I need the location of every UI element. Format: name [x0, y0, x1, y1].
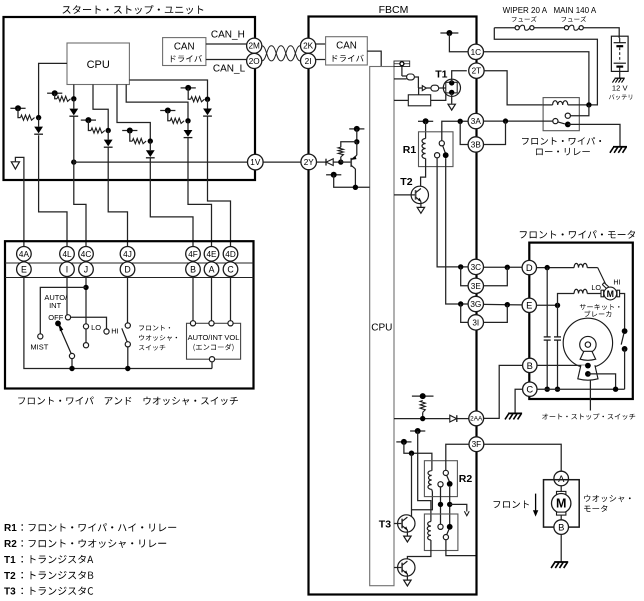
svg-text:B: B [558, 521, 564, 532]
pin 2I [301, 53, 316, 68]
contact LO lower [83, 343, 88, 348]
wire 3A-relay [484, 120, 553, 122]
contact enc A [209, 321, 214, 326]
start-stop unit box [4, 17, 256, 180]
pin 3E [468, 278, 483, 293]
wire cell1 to 4L [39, 135, 67, 247]
pin 3C [468, 259, 483, 274]
diode D2 [69, 109, 78, 116]
ground T1 [448, 104, 455, 110]
svg-text:R2: R2 [4, 539, 17, 550]
wire coil lead L [543, 104, 553, 106]
diode D-2Y [325, 159, 327, 166]
wire to 3E [461, 267, 468, 286]
junction rail-wiper [69, 366, 74, 371]
svg-text:2Y: 2Y [304, 158, 315, 167]
wire cell3 feed [93, 85, 108, 131]
pin D motor [522, 260, 536, 274]
wire HI to brush [587, 267, 598, 269]
pin 2T [469, 63, 484, 78]
wire T1 source [451, 93, 453, 104]
resistor R-2Y [338, 147, 343, 157]
wire T4 emitter [406, 574, 408, 580]
svg-text:2T: 2T [472, 67, 482, 76]
diode D4 [146, 150, 155, 157]
junction D feed [505, 265, 510, 270]
wire washer down [127, 347, 129, 369]
wire res-2AA [422, 412, 424, 418]
pin 4A [17, 247, 32, 262]
encoder box [187, 323, 241, 359]
junction cell3 [106, 128, 111, 133]
resistor cell3 [91, 128, 105, 133]
wiper motor box [529, 243, 633, 399]
wire R1 com up [442, 121, 468, 141]
svg-text:MAIN 140 A: MAIN 140 A [554, 6, 597, 15]
svg-text:3I: 3I [472, 318, 479, 327]
svg-text:2O: 2O [249, 57, 260, 66]
label front wiper low relay [522, 137, 601, 145]
label washer motor [584, 495, 630, 502]
svg-text:INT: INT [49, 301, 62, 310]
brush washer bottom [557, 512, 566, 515]
pin B motor [523, 358, 537, 372]
wire cell3 to 4J [108, 147, 127, 247]
svg-text:CPU: CPU [371, 323, 392, 334]
resistor cell4 [132, 139, 146, 144]
svg-text:R1: R1 [4, 523, 17, 534]
wire 2AA-B [484, 365, 523, 418]
contact enc bottom [209, 357, 214, 362]
wire RLY out gnd [568, 124, 620, 146]
pin D switch [120, 262, 135, 277]
brush LO [601, 290, 604, 297]
svg-text:4C: 4C [81, 250, 92, 259]
autostop shoe [578, 365, 598, 380]
svg-text:MIST: MIST [30, 342, 48, 351]
wire cell5 feed [126, 85, 188, 121]
junction washer supply [409, 451, 414, 456]
transistor T3 [398, 515, 415, 532]
contact washer top [125, 323, 130, 328]
brush common [617, 290, 620, 297]
svg-text:AUTO/INT VOL: AUTO/INT VOL [188, 333, 240, 342]
wire T3 emitter [406, 530, 408, 536]
wire AUTO-INT branch [40, 287, 86, 334]
junction cap1 [545, 387, 550, 392]
svg-text:HI: HI [111, 327, 119, 336]
relay R1 coil [422, 139, 426, 159]
wire B row [537, 364, 588, 366]
FBCM box [309, 17, 477, 595]
wire fuse to gate1 [402, 75, 407, 77]
wire pin C down [230, 276, 232, 321]
relay RLY-LO box [543, 98, 579, 131]
junction E in [555, 303, 560, 308]
pin 2K [301, 38, 316, 53]
wire cpu to gate1 [394, 78, 407, 80]
fuse MAIN 140A [564, 26, 568, 30]
wire brush-B [560, 515, 562, 520]
wire 2I-CAN [316, 59, 326, 61]
wire supply down [356, 129, 358, 142]
pin 4F [186, 247, 201, 262]
junction 2Y supply [354, 139, 359, 144]
fuse F-int box [394, 61, 410, 67]
junction 3A-3B [458, 119, 463, 124]
wire R1NO-3C [437, 158, 468, 267]
wire stub-collector [334, 175, 370, 188]
ground C pin [508, 412, 522, 414]
wire R2NO down [440, 487, 442, 524]
transistor T4 [398, 559, 415, 576]
pin C motor [523, 382, 537, 396]
wire cap1 bottom [546, 340, 548, 389]
wire res branch [341, 142, 357, 147]
wire diode-2AApin [457, 418, 469, 420]
pin 4D [223, 247, 238, 262]
wire to 3I [461, 304, 468, 322]
relay R3 lever [447, 529, 449, 534]
svg-text:2AA: 2AA [470, 416, 483, 423]
svg-text:CAN_H: CAN_H [211, 30, 245, 41]
junction E feed [505, 302, 510, 307]
pin I switch [60, 262, 75, 277]
logic block U-E [408, 95, 430, 106]
wire enc bottom [211, 362, 213, 369]
wire S2 elbow [55, 93, 57, 99]
junction cell1 [36, 115, 41, 120]
wire cell3 mid [107, 131, 109, 140]
svg-text:LO: LO [91, 323, 101, 332]
node stub S3 [81, 119, 96, 121]
svg-text:A: A [209, 264, 215, 274]
pin 2M [247, 38, 262, 53]
wire pin I down [66, 276, 68, 315]
svg-text:E: E [526, 300, 532, 311]
transistor Q-2Y pnp [350, 158, 352, 167]
contact washer bottom [125, 342, 130, 347]
node stub S1 [10, 107, 25, 109]
wire cell1 feed [39, 63, 67, 117]
wire fuse down [401, 66, 403, 76]
transistor T1 fet [443, 79, 460, 96]
resistor cell2 [57, 96, 71, 101]
CAN driver U-C box [326, 37, 368, 65]
autostop leader [589, 380, 591, 411]
svg-text:J: J [84, 264, 88, 274]
wire cell5 mid [187, 121, 189, 130]
pin 4L [60, 247, 75, 262]
label encoder [194, 344, 234, 352]
gate G1 [407, 74, 415, 80]
svg-text:2K: 2K [303, 42, 314, 51]
pin 1V [248, 154, 264, 170]
wire supply-T3 [411, 453, 413, 516]
CAN driver U-B box [163, 38, 206, 66]
node stub S5 [160, 110, 175, 112]
resistor cell5 [170, 118, 184, 123]
svg-text:4A: 4A [19, 250, 30, 259]
pin 2Y [301, 154, 317, 170]
wire stub1 to coil2 [418, 431, 431, 522]
wire res-base [340, 157, 342, 162]
contact R1 com [439, 141, 444, 146]
brush washer top [557, 491, 566, 494]
wire T1 drain [452, 71, 467, 83]
junction cell2 [71, 96, 76, 101]
svg-text:4F: 4F [188, 250, 198, 259]
wire S4 elbow [130, 131, 133, 142]
node stub washer1 [410, 430, 425, 432]
resistor cell6 [191, 97, 205, 102]
wire CAN_L [206, 59, 247, 61]
svg-text:T1: T1 [435, 69, 447, 81]
wire C row [537, 388, 625, 390]
node stub S2 [47, 92, 62, 94]
ground washer [554, 561, 568, 563]
wire LO to brush [587, 293, 601, 295]
wire R1 coil top [425, 121, 427, 138]
junction washer out R [447, 502, 452, 507]
wire logic-T1gate [431, 93, 446, 101]
contact RLY NC [565, 113, 570, 118]
wire 3C-D [484, 266, 523, 268]
diode D5 [184, 130, 193, 137]
wire autostop down [624, 349, 626, 389]
node stub 2Y gnd [326, 174, 341, 176]
junction 2AA [420, 416, 425, 421]
wire base bar [341, 161, 351, 163]
node stub R1 supply [418, 120, 433, 122]
svg-text:1V: 1V [250, 158, 261, 167]
wire gate1 out [414, 77, 418, 88]
ground T3 [404, 536, 411, 542]
svg-text:LO: LO [591, 283, 601, 292]
wire R2 coil hook [431, 489, 434, 491]
inductor HI coil [574, 263, 587, 267]
contact HI [104, 329, 109, 334]
junction 2Y collector [353, 185, 358, 190]
junction shoe-C [613, 387, 618, 392]
wire R1 coil bottom [421, 159, 426, 187]
relay R2 lever [447, 475, 450, 481]
contact RLY com [553, 119, 558, 124]
wire B-gnd [560, 534, 562, 561]
svg-text:4J: 4J [123, 250, 132, 259]
buffer B1 [422, 86, 426, 91]
junction cell2-1V [71, 159, 76, 164]
wire fuse rail 3 [583, 28, 619, 38]
washer switch lever [122, 328, 127, 342]
cam disc circle [563, 318, 612, 367]
wire 1V-2Y [263, 161, 301, 163]
wiper switch lever [59, 326, 71, 354]
label circuit breaker [580, 304, 620, 310]
wire S1 elbow [18, 108, 21, 117]
washer motor box [544, 480, 580, 527]
wire 3F-washer [484, 444, 561, 471]
svg-text:3C: 3C [471, 263, 482, 272]
svg-text:WIPER 20 A: WIPER 20 A [503, 6, 548, 15]
svg-text:R1: R1 [403, 144, 417, 156]
resistor R-2AA [420, 401, 425, 413]
node stub S6 [181, 87, 196, 89]
wire CAN_H [206, 43, 247, 45]
wire cell2 feed [73, 85, 75, 99]
pin 3A [468, 113, 483, 128]
arrow washer out [464, 511, 469, 516]
svg-text:T2: T2 [400, 176, 412, 188]
wire cell5 to 4E [188, 138, 212, 247]
node autostop top [622, 328, 628, 334]
wire C out [515, 389, 523, 413]
relay RLY-LO coil [553, 101, 568, 105]
wire coil lead R [568, 104, 589, 106]
svg-text:2M: 2M [249, 42, 261, 51]
cam keyhole [580, 336, 596, 352]
svg-text:3B: 3B [471, 140, 482, 149]
junction cell5 [185, 118, 190, 123]
pin 1C [468, 44, 483, 59]
node stub washer2 [396, 441, 411, 443]
wire washer out arrow [450, 504, 467, 511]
wire 2K-CAN [316, 43, 326, 45]
svg-text:4D: 4D [225, 250, 236, 259]
wire cpu-2AA [394, 418, 450, 420]
fuse WIPER 20A [515, 26, 519, 30]
wire T3 base [394, 523, 402, 525]
junction D in [545, 265, 550, 270]
diode D-2AA [450, 415, 457, 422]
wire pin E down [24, 276, 212, 368]
connector divider rows [5, 262, 254, 264]
wire CAN twisted pair [262, 46, 300, 61]
wire shoe-C [588, 374, 616, 389]
wire fuse rail 1 [494, 27, 515, 29]
pin 3I [468, 315, 483, 330]
CPU U-D box [370, 67, 394, 586]
wire S3 elbow [88, 120, 91, 130]
contact LO [83, 324, 88, 329]
relay R3 box [424, 514, 458, 551]
wire CAN-CPU [367, 51, 381, 66]
wire to buffer [418, 87, 422, 89]
svg-text:D: D [124, 264, 130, 274]
svg-text:D: D [526, 262, 533, 273]
pin 2O [247, 53, 262, 68]
pin 4C [79, 247, 94, 262]
wire pin A down [211, 276, 213, 321]
relay R1 lever [443, 146, 446, 153]
node stub S4 [122, 130, 137, 132]
ground T2 [417, 207, 424, 213]
wire D in [537, 267, 575, 269]
wire cell4 mid [149, 141, 151, 150]
svg-text:B: B [527, 360, 533, 371]
relay RLY lever [558, 122, 565, 124]
wire 2T to relay [484, 71, 543, 105]
wire T4 base [394, 567, 402, 569]
ground T4 [404, 580, 411, 586]
junction 3C-3E [458, 264, 463, 269]
pin 4J [120, 247, 135, 262]
pin 4E [204, 247, 219, 262]
wire S6 elbow [188, 88, 191, 99]
svg-text:4L: 4L [62, 250, 72, 259]
pin B switch [186, 262, 201, 277]
motor M washer [552, 494, 571, 513]
svg-text:CAN: CAN [336, 41, 357, 52]
svg-text:3E: 3E [471, 282, 482, 291]
relay R2 coil [428, 471, 432, 490]
label front wiper motor [520, 230, 635, 238]
pin 3F [469, 437, 484, 452]
junction washer out L [438, 502, 443, 507]
wire R2NC down [449, 487, 451, 524]
svg-text:CAN_L: CAN_L [213, 63, 246, 74]
pin E motor [522, 298, 536, 312]
svg-text:M: M [556, 497, 566, 511]
contact R1 NO [435, 153, 440, 158]
capacitor C1 [544, 336, 551, 338]
node stub 2Y supply [349, 128, 364, 130]
wire 3E-D [484, 267, 508, 286]
wire 1C to relay [484, 52, 589, 105]
wire buffer-gate2 [426, 87, 431, 89]
junction cell6 [205, 97, 210, 102]
svg-text:E: E [21, 264, 27, 274]
wire cap2 top [557, 305, 559, 336]
wire pivot down [71, 359, 73, 369]
svg-text:OFF: OFF [48, 313, 63, 322]
svg-text:T1: T1 [4, 555, 16, 566]
battery 12V [611, 36, 628, 71]
wire to 3B [460, 121, 468, 144]
brush HI [602, 283, 609, 289]
wire stub-1C [449, 33, 468, 52]
svg-text:CAN: CAN [174, 41, 195, 52]
pin C switch [223, 262, 238, 277]
junction cell4 [148, 138, 153, 143]
node R1 NC [443, 152, 449, 158]
wire wiper fuse feed [494, 28, 597, 105]
ground relay [613, 146, 627, 148]
node RLY out [565, 122, 571, 128]
pin 3G [468, 296, 483, 311]
wire E in [537, 304, 558, 306]
contact R2 com [443, 470, 448, 475]
junction 3G-3I [458, 301, 463, 306]
svg-text:T3: T3 [4, 587, 16, 598]
wire cpu-logic [394, 99, 408, 101]
label front arrow [494, 501, 529, 509]
pin 2AA [469, 411, 484, 426]
node shoe C [585, 371, 591, 377]
junction relay supply [586, 102, 591, 107]
wire 3F-R2 [446, 444, 469, 470]
wire 3I-E [484, 305, 508, 323]
svg-text:C: C [227, 264, 234, 274]
wire battery gnd [619, 71, 621, 77]
svg-text:FBCM: FBCM [379, 4, 409, 16]
wire cell2 to 4C [74, 116, 86, 247]
wire pin J down [85, 276, 87, 324]
node R2 NC [447, 481, 453, 487]
diode D3 [104, 140, 113, 147]
wire supply-NC [570, 105, 589, 116]
label washer switch [139, 325, 170, 331]
